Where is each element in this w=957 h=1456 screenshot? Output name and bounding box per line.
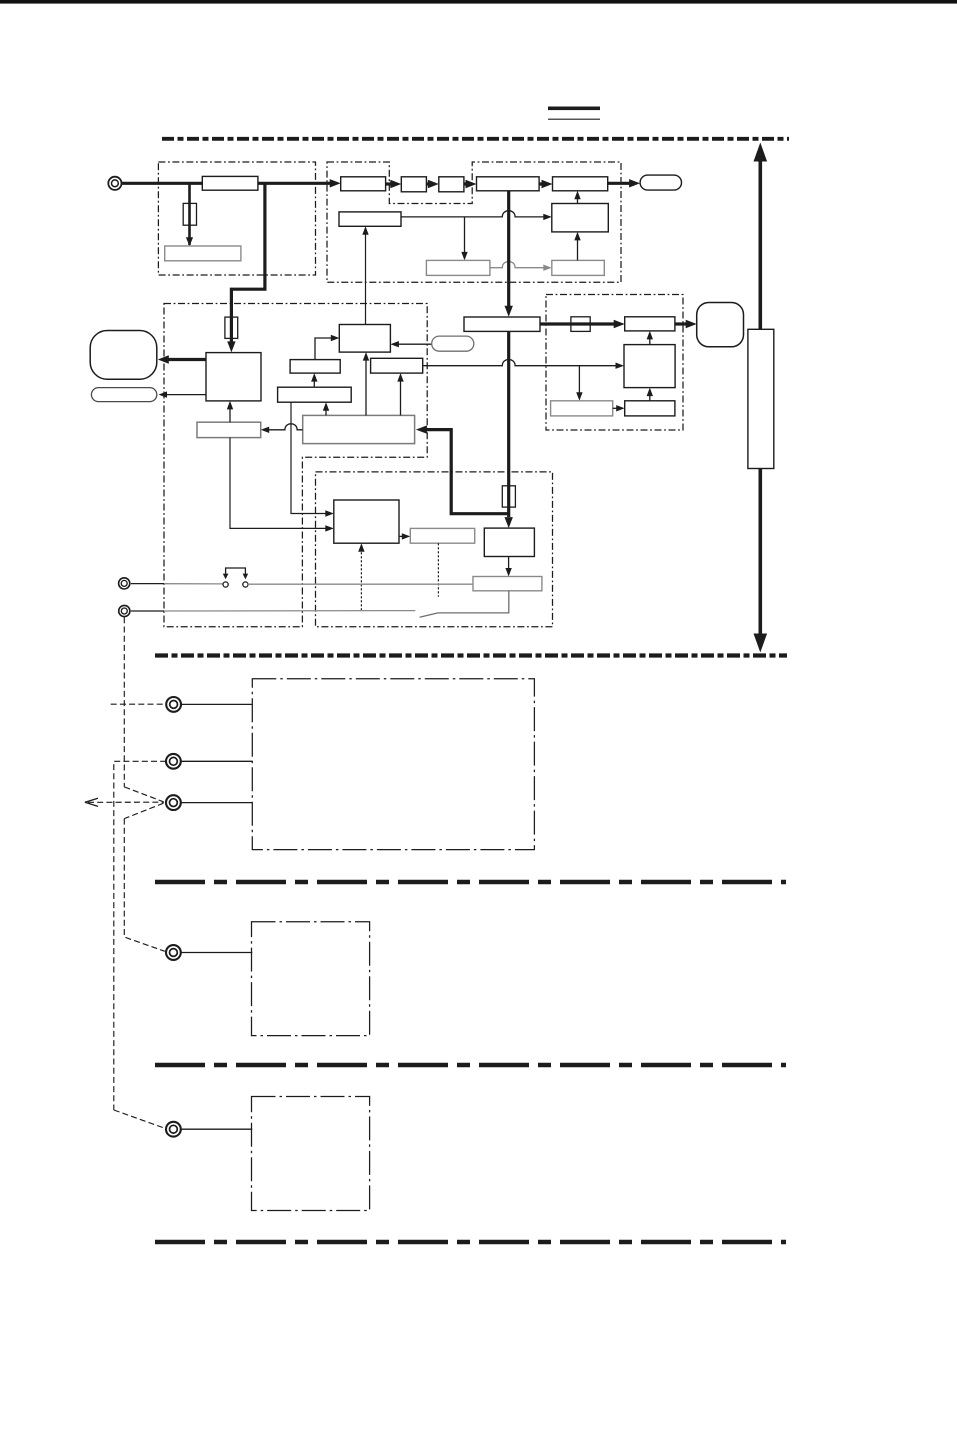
connector J1 (antenna input) bbox=[108, 177, 121, 190]
wire W1 up to S1 bbox=[313, 377, 315, 387]
block S1 (preamp) bbox=[290, 360, 340, 374]
section divider 2 bbox=[155, 653, 787, 657]
arrow into block A3 bbox=[390, 180, 401, 188]
arrow into B1 right edge bbox=[416, 425, 427, 433]
block M2 (servo) bbox=[624, 345, 675, 388]
control dotted wire up into P4 bbox=[360, 549, 362, 611]
arrow into P6 left bbox=[402, 533, 411, 539]
wire A5 to A6 bbox=[539, 182, 544, 185]
block A5 (IF amp) bbox=[477, 177, 540, 191]
arrow into T1 left bbox=[331, 335, 340, 341]
wire branch down to R2 bbox=[464, 217, 466, 255]
arrow into output pill bbox=[629, 179, 640, 187]
bus wire X1 down to P5 bbox=[507, 331, 510, 517]
block M4 (speed det) bbox=[625, 401, 675, 416]
block P4 (system micom) bbox=[334, 500, 399, 543]
module box 5 (motor drive) bbox=[546, 295, 683, 431]
block M3 (sensor amp) bbox=[551, 401, 613, 416]
wire J3 toward SW2 bbox=[131, 610, 164, 612]
fuse F2 bbox=[225, 317, 238, 338]
wire pill P3 to T1 bbox=[397, 343, 432, 345]
module box 6 (section 2 unit) bbox=[252, 679, 534, 850]
block P7 (relay board) bbox=[473, 577, 542, 591]
arrow into block R3 bbox=[543, 214, 552, 220]
arrow into block Q1 bbox=[227, 341, 235, 352]
wire A1 output bbox=[258, 182, 331, 185]
wire A3 to A4 bbox=[426, 182, 430, 185]
switch blade SW2 (open) bbox=[420, 613, 438, 617]
module box 4 (servo/control) bbox=[316, 472, 553, 627]
wire A4 to A5 bbox=[464, 182, 468, 185]
wire B1 up to S2 bbox=[400, 378, 402, 416]
arrow into block R4 bbox=[543, 265, 552, 271]
wire E1 to box 7 bbox=[181, 952, 252, 954]
wire S2 to M2 long with hop bbox=[423, 359, 617, 365]
wire J2 to switch bbox=[131, 583, 164, 585]
wire P4 to P6 bbox=[399, 535, 404, 537]
connector J3 (remote in) bbox=[119, 605, 130, 616]
wire branch down to M3 bbox=[578, 366, 580, 397]
wire R4 up to R3 bbox=[577, 237, 579, 261]
dashed diagonal into F1 bbox=[114, 1110, 165, 1128]
arrow into speaker bbox=[158, 355, 169, 363]
control dotted wire below P6 bbox=[437, 543, 439, 596]
arrow into T1 bottom bbox=[363, 352, 369, 361]
connector E1 bbox=[166, 945, 181, 960]
fuse F4 bbox=[502, 486, 515, 507]
arrow into R1 bottom bbox=[362, 226, 368, 235]
jack pill P2 (headphone) bbox=[91, 388, 156, 402]
section divider 1 (top) bbox=[162, 137, 789, 141]
wire X1 to M1 thick bbox=[540, 322, 617, 325]
scan artifact: page top edge line bbox=[0, 0, 957, 4]
switch SW1 contact b bbox=[243, 582, 248, 587]
switch SW1 contact a bbox=[223, 582, 228, 587]
wire T1 up to R1 bbox=[365, 231, 367, 325]
output pill P1 (audio out) bbox=[640, 175, 681, 190]
wire B1 up to W1 bbox=[325, 406, 327, 415]
wire D2 to box 6 bbox=[181, 760, 252, 762]
wire D3 to box 6 bbox=[181, 802, 252, 804]
arrow into block A2 bbox=[330, 179, 341, 187]
module box 7 (section 3 unit) bbox=[252, 922, 370, 1036]
wire M3 to M4 bbox=[613, 407, 618, 409]
module box 3 (audio output, L-shaped outline) bbox=[164, 304, 427, 627]
module box 1 (tuner input) bbox=[158, 162, 315, 275]
legend thin-line sample bbox=[548, 118, 600, 120]
block A2 (mixer) bbox=[341, 177, 386, 191]
indicator plate G1 bbox=[165, 246, 241, 261]
wire B1 up to T1 bbox=[365, 356, 367, 415]
wire Q1 to jack pill bbox=[166, 394, 206, 396]
block M1 (motor driver) bbox=[625, 317, 675, 331]
wire M4 up to M2 bbox=[649, 392, 651, 401]
wire P7 bottom path to switch blade bbox=[438, 591, 509, 613]
arrow into motor bbox=[686, 320, 697, 328]
arrow into block P5 bbox=[505, 517, 513, 528]
block T1 (tone control) bbox=[339, 325, 390, 353]
arrow into P7 top bbox=[505, 568, 511, 577]
block A4 (filter 2) bbox=[439, 177, 464, 192]
block W1 (volume) bbox=[278, 387, 352, 402]
arrow into A6 bottom bbox=[574, 191, 580, 200]
wire L1 up to Q1 bbox=[229, 406, 231, 423]
wire S1 elbow to T1 bbox=[315, 338, 332, 360]
wire A2 to A3 bbox=[386, 182, 393, 185]
off-page open arrowhead bbox=[85, 798, 98, 802]
block B1 (system control) bbox=[303, 415, 415, 443]
wire R2 to R4 with hop over bus bbox=[490, 261, 545, 267]
wire M1 to motor bbox=[675, 322, 688, 325]
wire M2 up to M1 bbox=[649, 335, 651, 344]
block P6 (driver) bbox=[410, 528, 474, 543]
motor symbol MT1 bbox=[697, 303, 744, 347]
arrow into S2 bottom bbox=[397, 373, 403, 382]
dashed diagonal upper into D3 bbox=[124, 787, 163, 802]
block L1 (power supply reg) bbox=[197, 422, 261, 437]
section divider 5 (bottom) bbox=[155, 1240, 786, 1244]
block R3 (buffer) bbox=[552, 204, 609, 232]
arrow into P4 upper left bbox=[325, 510, 334, 516]
wire A6 to output pill bbox=[608, 182, 630, 185]
connector D1 bbox=[166, 697, 181, 712]
block S2 (eq) bbox=[371, 358, 423, 373]
block A1 (RF amp) bbox=[202, 176, 258, 190]
module box 8 (section 4 unit) bbox=[252, 1097, 370, 1211]
arrow into indicator G1 bbox=[186, 237, 193, 246]
wire antenna input to block A1 bbox=[121, 182, 203, 185]
arrow into block R2 bbox=[461, 252, 467, 261]
dashed wire to off-page arrow bbox=[88, 801, 164, 803]
connector F1 bbox=[166, 1122, 181, 1137]
wire D1 to box 6 bbox=[181, 703, 252, 705]
fuse F1 bbox=[183, 203, 196, 225]
bus branch to block B1 bbox=[424, 430, 509, 514]
arrow into M4 left bbox=[616, 405, 625, 411]
wire thick branch to audio module bbox=[231, 183, 265, 346]
arrow into L1 right bbox=[261, 427, 270, 433]
wire W1 down to P4 bbox=[291, 402, 327, 513]
dashed link from J3 down to D3 upper bbox=[123, 617, 125, 787]
wire branch down to fuse F1 bbox=[188, 183, 191, 245]
block R4 (reference) bbox=[552, 260, 605, 275]
wire switch to P7 bbox=[248, 583, 473, 585]
block R2 (AFT) bbox=[426, 260, 490, 275]
block X1 (power switch) bbox=[464, 317, 540, 331]
connector D2 bbox=[166, 754, 181, 769]
arrow into M2 left bbox=[616, 363, 625, 369]
connector J2 (remote pause in) bbox=[119, 578, 130, 589]
block A6 (detector) bbox=[553, 177, 608, 191]
wire P5 down to P7 bbox=[508, 557, 510, 573]
dashed link D2 to F1 bbox=[114, 761, 166, 1110]
arrow into M1 left bbox=[614, 320, 625, 328]
speaker SP1 bbox=[90, 331, 157, 380]
arrow into M3 top bbox=[576, 392, 582, 401]
wire Q1 to speaker bbox=[166, 358, 206, 361]
block P5 (power block) bbox=[484, 528, 534, 556]
fuse F3 bbox=[571, 317, 590, 332]
section divider 4 bbox=[155, 1063, 786, 1067]
arrow into M1 bottom bbox=[647, 331, 653, 340]
arrow into R3 bottom bbox=[574, 232, 580, 241]
board edge connector (tall rectangle) bbox=[748, 329, 774, 468]
arrow into block A4 bbox=[428, 180, 439, 188]
bus wire A5 down to X1 bbox=[507, 191, 510, 307]
wire R3 up to A6 bbox=[577, 195, 579, 203]
wire R1 to R3 with hop over bus bbox=[401, 211, 545, 217]
block R1 (AGC) bbox=[339, 212, 401, 226]
block Q1 (audio power amp) bbox=[206, 353, 261, 401]
connector D3 bbox=[166, 795, 181, 810]
system bus arrow (vertical, both ends) bbox=[758, 158, 762, 329]
mute pill P3 bbox=[432, 336, 474, 351]
wire F1 to box 8 bbox=[181, 1128, 252, 1130]
arrow into P4 lower left bbox=[325, 525, 334, 531]
module box 2 (IF strip, notched outline) bbox=[327, 162, 621, 282]
dashed diagonal lower into D3 bbox=[124, 803, 163, 818]
arrow into jack pill bbox=[159, 391, 168, 397]
arrow into X1 top bbox=[505, 306, 513, 317]
wire L1 down to P4 bbox=[230, 438, 327, 529]
dashed stub left of D1 bbox=[111, 703, 165, 705]
arrow into block A5 bbox=[466, 180, 477, 188]
switch SW1 actuator bracket bbox=[226, 568, 246, 574]
arrow into W1 bottom bbox=[323, 402, 329, 411]
section divider 3 bbox=[155, 880, 786, 884]
arrow into T1 right bbox=[390, 341, 399, 347]
block A3 (filter 1) bbox=[401, 177, 426, 192]
legend thick-line sample bbox=[548, 107, 600, 111]
dashed link D3 to E1 bbox=[124, 819, 165, 952]
arrow into Q1 bottom bbox=[227, 401, 233, 410]
arrow into M2 bottom bbox=[647, 388, 653, 397]
arrow into S1 bottom bbox=[311, 373, 317, 382]
arrow into block A6 bbox=[542, 180, 553, 188]
wire B1 to L1 with hop bbox=[266, 424, 303, 430]
